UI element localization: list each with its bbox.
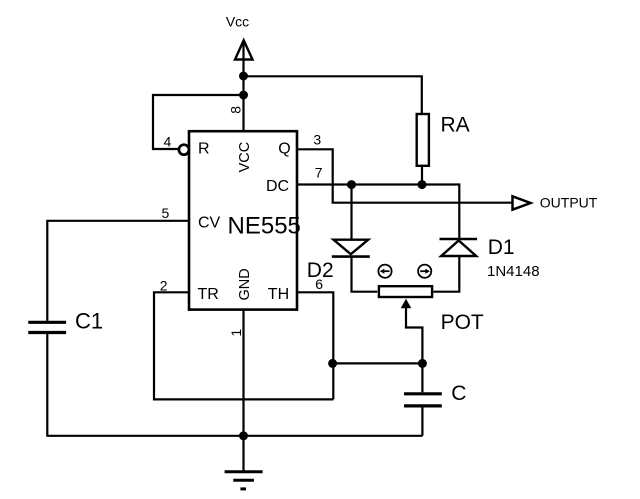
wire Vcc to pin 4 (reset) xyxy=(153,95,244,149)
wire pin 1 GND down xyxy=(242,310,244,472)
junction dot RA bottom xyxy=(418,180,427,189)
junction dot wiper bus left xyxy=(328,359,337,368)
wire capacitor C top xyxy=(421,363,423,392)
diode D1 (pointing up) xyxy=(440,239,478,256)
svg-text:1N4148: 1N4148 xyxy=(487,263,540,280)
wire Vcc stem to pin 8 xyxy=(242,60,244,132)
wire pin 7 DC line xyxy=(297,185,459,239)
svg-text:CV: CV xyxy=(198,215,221,232)
wire capacitor C bottom xyxy=(421,407,423,435)
svg-text:D2: D2 xyxy=(307,259,334,282)
wire Vcc to RA top xyxy=(244,76,422,114)
junction dot at Vcc/pin4 branch xyxy=(239,91,248,100)
svg-text:RA: RA xyxy=(441,114,470,137)
resistor RA xyxy=(417,114,429,166)
junction dot D2 branch xyxy=(347,180,356,189)
svg-text:8: 8 xyxy=(228,106,244,114)
svg-text:TR: TR xyxy=(198,286,219,303)
wire pin 5 CV to C1 xyxy=(47,221,189,321)
wire pin 6 TH down xyxy=(297,292,333,399)
svg-text:TH: TH xyxy=(268,286,289,303)
wire pin 3 Q to output line xyxy=(297,149,512,202)
svg-text:DC: DC xyxy=(266,178,289,195)
svg-text:NE555: NE555 xyxy=(228,212,301,239)
rotation indicator right (circled arrow) xyxy=(418,265,431,278)
svg-text:1: 1 xyxy=(228,329,244,337)
svg-text:4: 4 xyxy=(164,133,172,149)
svg-text:7: 7 xyxy=(315,165,323,181)
svg-text:GND: GND xyxy=(237,268,253,300)
wire pot wiper arm xyxy=(401,299,423,364)
wire D1 anode to pot right xyxy=(434,257,460,292)
rotation indicator left (circled arrow) xyxy=(378,265,391,278)
svg-text:OUTPUT: OUTPUT xyxy=(540,194,598,210)
potentiometer POT body xyxy=(379,286,432,297)
wire pin 2 TR loop xyxy=(154,292,333,399)
ground symbol xyxy=(225,472,263,489)
svg-text:D1: D1 xyxy=(488,236,515,259)
svg-text:Q: Q xyxy=(278,141,290,158)
svg-text:C1: C1 xyxy=(75,309,103,334)
svg-text:C: C xyxy=(451,382,466,405)
svg-text:3: 3 xyxy=(313,131,321,147)
svg-text:5: 5 xyxy=(162,205,170,221)
inversion bubble on pin 4 R xyxy=(179,145,189,155)
wire D2 cathode to pot left xyxy=(352,257,378,292)
junction dot wiper bus right xyxy=(418,359,427,368)
svg-text:2: 2 xyxy=(160,278,168,294)
wire pin7 line to D2 anode xyxy=(350,185,352,239)
wire RA bottom to pin7 line xyxy=(421,166,423,185)
capacitor C xyxy=(404,394,442,406)
junction dot ground rail xyxy=(239,431,248,440)
svg-text:VCC: VCC xyxy=(237,142,253,173)
power symbol Vcc xyxy=(235,40,253,59)
capacitor C1 xyxy=(28,322,66,332)
output arrow xyxy=(513,196,531,209)
junction dot at Vcc/RA branch xyxy=(239,72,248,81)
svg-text:POT: POT xyxy=(441,311,484,334)
diode D2 (pointing down) xyxy=(332,240,370,257)
svg-text:Vcc: Vcc xyxy=(226,14,249,30)
wire wiper bus xyxy=(333,362,423,364)
op-amp style IC body U1 NE555 xyxy=(189,131,297,309)
svg-text:R: R xyxy=(198,141,210,158)
wire C1 bottom to ground rail xyxy=(47,334,422,436)
